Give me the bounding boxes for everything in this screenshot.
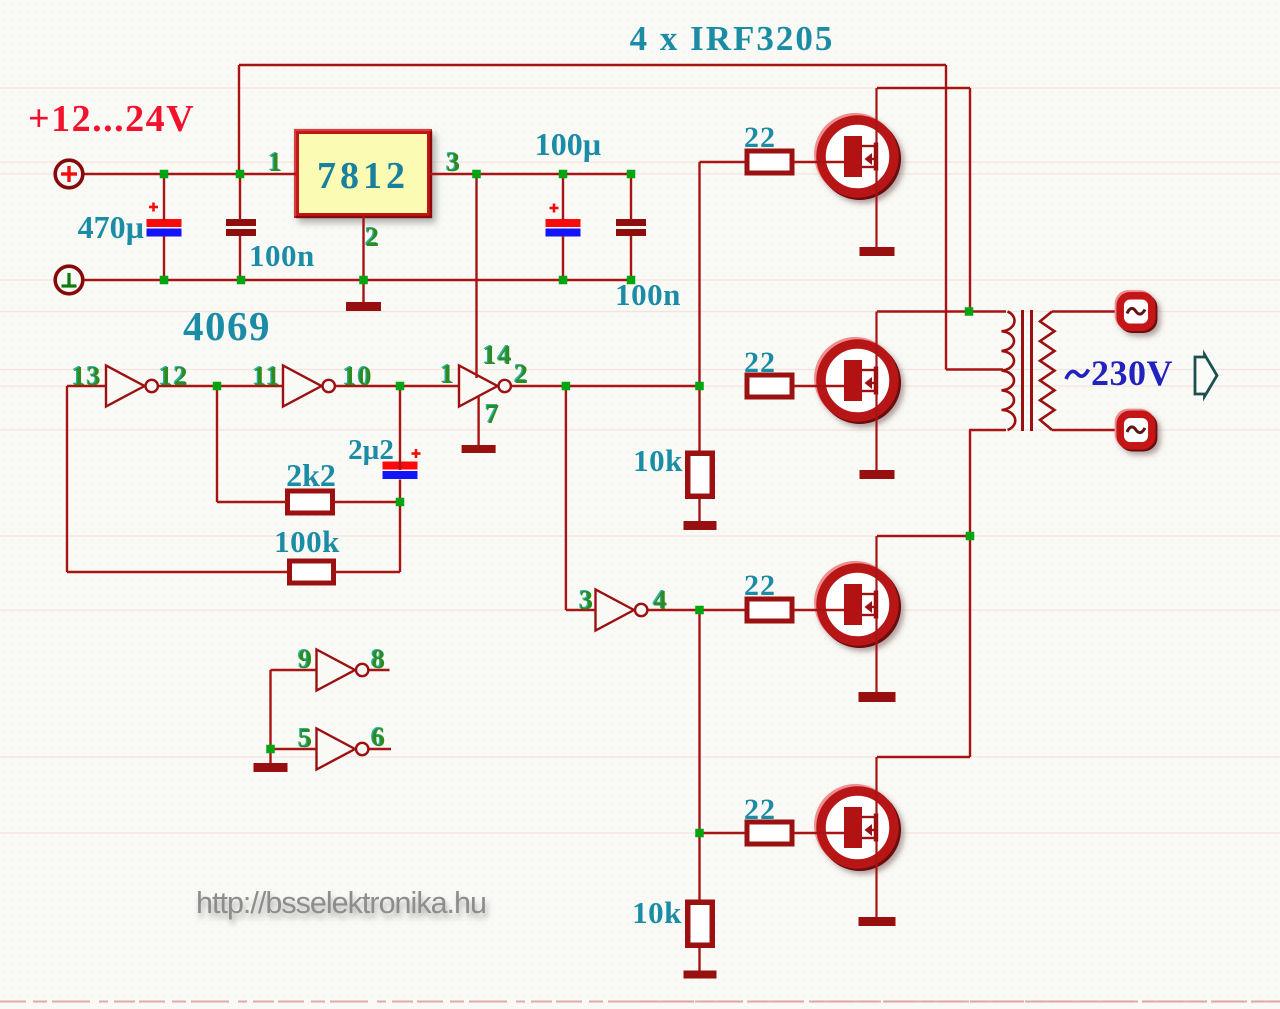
svg-text:10k: 10k [632,895,682,930]
svg-text:4069: 4069 [183,303,271,349]
svg-text:1: 1 [441,359,456,389]
svg-text:7812: 7812 [317,155,409,197]
svg-text:4: 4 [654,585,669,615]
svg-text:4 x IRF3205: 4 x IRF3205 [630,19,835,58]
svg-text:http://bsselektronika.hu: http://bsselektronika.hu [196,885,486,920]
svg-text:10: 10 [343,361,373,391]
svg-text:1: 1 [269,147,284,177]
svg-text:2: 2 [366,222,381,252]
svg-text:8: 8 [372,644,387,674]
svg-text:3: 3 [447,147,462,177]
svg-text:2: 2 [515,359,530,389]
svg-text:10k: 10k [633,443,683,478]
svg-text:22: 22 [744,346,776,379]
svg-text:470µ: 470µ [78,209,144,245]
svg-text:7: 7 [486,399,501,429]
svg-text:+12...24V: +12...24V [28,98,195,140]
svg-text:100n: 100n [615,277,681,312]
svg-text:22: 22 [744,121,776,154]
svg-text:22: 22 [744,793,776,826]
svg-text:100µ: 100µ [535,126,601,162]
svg-text:100n: 100n [249,238,315,273]
svg-text:11: 11 [253,361,282,391]
svg-text:9: 9 [299,644,314,674]
svg-text:2µ2: 2µ2 [348,434,394,466]
svg-text:100k: 100k [274,524,340,559]
svg-text:14: 14 [483,340,513,370]
svg-text:12: 12 [159,361,189,391]
svg-text:6: 6 [372,722,387,752]
svg-text:13: 13 [72,361,102,391]
svg-text:230V: 230V [1091,353,1173,393]
svg-text:5: 5 [299,723,314,753]
svg-text:22: 22 [744,569,776,602]
svg-text:3: 3 [580,585,595,615]
svg-text:2k2: 2k2 [286,457,336,493]
